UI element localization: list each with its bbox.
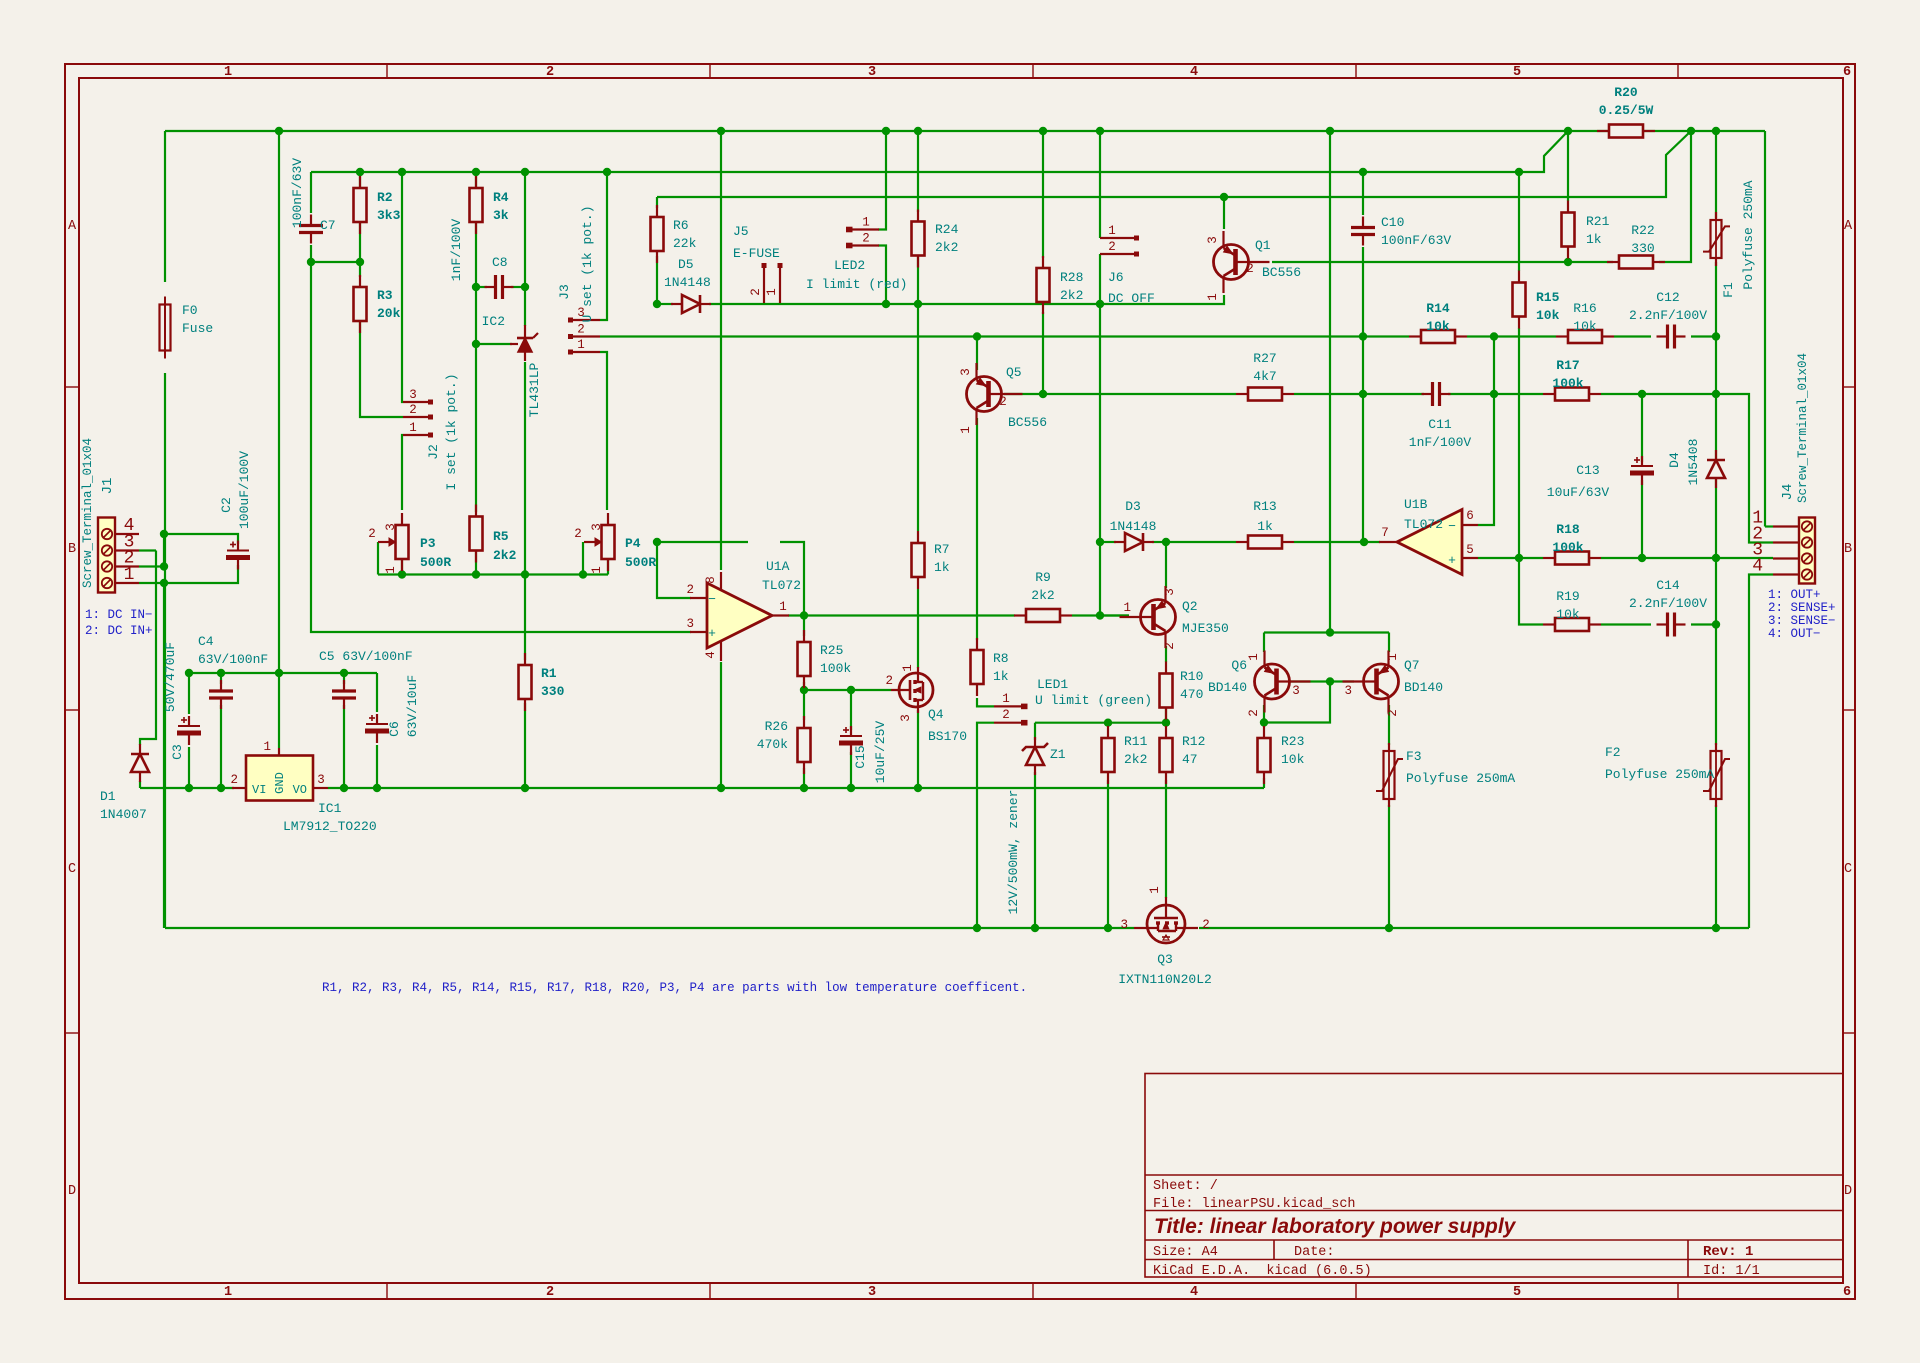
junction (1716,928) [1712,924,1720,932]
wire IC2 top [524,172,526,326]
shunt reference IC2 TL431LP [518,338,532,352]
svg-text:R6: R6 [673,218,689,233]
wire R10 R12 node [1165,708,1167,726]
junction (1519,172) [1515,168,1523,176]
svg-text:TL431LP: TL431LP [527,362,542,417]
diode D5 1N4148 [682,295,700,313]
svg-text:J6: J6 [1108,270,1124,285]
junction (1568,262) [1564,258,1572,266]
junction (1224,197) [1220,193,1228,201]
svg-text:C13: C13 [1576,463,1599,478]
svg-text:R18: R18 [1556,522,1580,537]
capacitor C13 polarized [1631,465,1653,467]
wire bottom bus right [1199,927,1749,929]
junction (360,262) [356,258,364,266]
svg-text:2: 2 [885,674,893,688]
svg-text:J3: J3 [557,284,572,300]
wire Q1 base to R22 [1272,261,1613,263]
wire bus3 [657,131,1691,197]
wire sense+ drop [1715,337,1717,395]
wire -12V rail left [140,787,234,789]
svg-text:3: 3 [1344,684,1352,698]
svg-text:1: 1 [590,566,604,574]
svg-text:4: OUT−: 4: OUT− [1768,627,1821,641]
junction (1264,722.5) [1260,718,1268,726]
wire F1 bottom [1715,262,1717,337]
wire D3 R13 U1B [1166,541,1236,543]
wire C2 top [164,534,238,544]
svg-text:R3: R3 [377,288,393,303]
wire Q2 base [1100,614,1129,616]
resistor R24 [912,222,925,256]
svg-text:4: 4 [1190,1285,1198,1300]
svg-text:D1: D1 [100,789,116,804]
junction (851,788) [847,784,855,792]
wire Q6Q7 emitter bus [1263,633,1265,653]
svg-text:B: B [1844,542,1852,557]
junction (1716,394) [1712,390,1720,398]
wire R2 R3 mid [359,222,361,277]
wire R11 top [1107,722,1109,726]
svg-text:3: 3 [1120,918,1128,932]
svg-text:500R: 500R [420,555,451,570]
svg-text:I limit (red): I limit (red) [806,277,907,292]
wire R12 to Q3 gate [1165,780,1167,898]
svg-text:BC556: BC556 [1262,265,1301,280]
resistor R23 [1258,738,1271,772]
svg-text:Q7: Q7 [1404,658,1420,673]
wire F0 bottom to bus [164,373,166,928]
connector J6 DC OFF [1100,237,1139,239]
junction (279,673) [275,669,283,677]
svg-text:LM7912_TO220: LM7912_TO220 [283,819,377,834]
svg-text:GND: GND [273,772,287,794]
svg-text:R1, R2, R3, R4, R5, R14, R15,: R1, R2, R3, R4, R5, R14, R15, R17, R18, … [322,981,1027,995]
svg-text:2: 2 [862,232,870,246]
wire C7 top [310,172,312,213]
wire R8 bottom [977,698,994,706]
resistor R4 [470,188,483,222]
svg-text:Q3: Q3 [1157,952,1173,967]
wire R17 right [1601,394,1773,543]
svg-text:3: 3 [959,368,973,376]
svg-text:20k: 20k [377,306,401,321]
capacitor C14 [1666,613,1669,637]
junction (1642,394) [1638,390,1646,398]
svg-text:P3: P3 [420,536,436,551]
transistor Q6 BD140 [1255,664,1290,699]
wire R11 bottom [1107,780,1109,928]
svg-text:1k: 1k [934,560,950,575]
svg-text:R14: R14 [1426,301,1450,316]
wire R15 bottom [1518,328,1520,558]
svg-text:Screw_Terminal_01x04: Screw_Terminal_01x04 [1796,353,1810,503]
wire C13 bottom [1641,480,1643,558]
svg-text:1: 1 [1002,692,1010,706]
svg-text:3: 3 [868,65,876,80]
svg-text:1: 1 [765,288,779,296]
wire R24 top [917,131,919,212]
wire F3 bottom [1388,805,1390,928]
svg-text:1: OUT+: 1: OUT+ [1768,588,1821,602]
svg-text:Q2: Q2 [1182,599,1198,614]
wire J6 pin1 up [1099,131,1101,238]
wire +input vert [311,262,691,632]
svg-text:Q6: Q6 [1231,658,1247,673]
wire IC1 gnd vert [278,131,280,748]
svg-text:10k: 10k [1573,319,1597,334]
junction (1043,131) [1039,127,1047,135]
svg-text:2: 2 [1108,240,1116,254]
junction (476,344) [472,340,480,348]
svg-text:BC556: BC556 [1008,415,1047,430]
wire J4 pin4 drop [1749,575,1773,929]
svg-text:7: 7 [1381,526,1389,540]
svg-text:1N5408: 1N5408 [1686,439,1701,486]
svg-text:2k2: 2k2 [1060,288,1083,303]
svg-text:2: DC IN+: 2: DC IN+ [85,624,153,638]
svg-text:1: 1 [1148,886,1162,894]
svg-text:D4: D4 [1667,452,1682,468]
junction (657,304) [653,300,661,308]
svg-text:1: 1 [124,565,135,585]
svg-text:10k: 10k [1281,752,1305,767]
svg-text:2: SENSE+: 2: SENSE+ [1768,601,1836,615]
svg-text:12V/500mW, zener: 12V/500mW, zener [1006,790,1021,915]
wire C5 top [343,673,345,684]
capacitor C4 [209,689,233,692]
wire bottom bus left [165,927,1134,929]
wire comp node drop [1362,337,1364,543]
capacitor C5 [332,689,356,692]
wire F2 bottom [1715,805,1717,928]
junction (1642,558) [1638,554,1646,562]
svg-text:D3: D3 [1125,499,1141,514]
junction (721,788) [717,784,725,792]
svg-text:C: C [1844,862,1852,877]
svg-text:C5 63V/100nF: C5 63V/100nF [319,649,413,664]
svg-text:VO: VO [293,783,307,797]
svg-text:−: − [708,592,716,607]
svg-text:63V/100nF: 63V/100nF [198,652,268,667]
svg-text:5: 5 [1513,65,1521,80]
svg-text:4: 4 [1752,557,1763,577]
svg-text:2.2nF/100V: 2.2nF/100V [1629,596,1707,611]
svg-text:BS170: BS170 [928,729,967,744]
svg-text:0.25/5W: 0.25/5W [1599,103,1654,118]
svg-text:3: 3 [1163,588,1177,596]
svg-text:R20: R20 [1614,85,1638,100]
wire R4 top [475,172,477,188]
svg-text:1: 1 [1386,653,1400,661]
wire R1 bottom [524,703,526,788]
svg-text:Id: 1/1: Id: 1/1 [1703,1264,1760,1279]
svg-text:+: + [1448,553,1456,568]
svg-text:R22: R22 [1631,223,1654,238]
wire D3 anode lead [1100,541,1116,543]
svg-text:3k3: 3k3 [377,208,401,223]
svg-text:C6: C6 [387,721,402,737]
junction (525,287) [521,283,529,291]
svg-text:5: 5 [1466,543,1474,557]
svg-text:1: 1 [901,664,915,672]
svg-text:U set (1k pot.): U set (1k pot.) [580,205,595,322]
wire Q5 e up [976,337,978,371]
wire R25 top [803,616,805,637]
junction (918,304) [914,300,922,308]
wire R25 R26 node [803,682,805,720]
svg-text:4: 4 [704,651,718,659]
wire C9 right [780,542,804,616]
svg-text:BD140: BD140 [1208,680,1247,695]
svg-text:470: 470 [1180,687,1203,702]
svg-text:6: 6 [1466,509,1474,523]
svg-text:R23: R23 [1281,734,1304,749]
svg-text:R19: R19 [1556,589,1579,604]
connector LED2 [852,228,879,230]
svg-text:8: 8 [704,576,718,584]
wire R16 to C12 [1614,335,1651,337]
wire R21 top [1567,131,1569,201]
svg-text:IXTN110N20L2: IXTN110N20L2 [1118,972,1212,987]
svg-text:2k2: 2k2 [1031,588,1054,603]
svg-text:1: 1 [263,740,271,754]
junction (1166,542) [1162,538,1170,546]
svg-text:BD140: BD140 [1404,680,1443,695]
svg-text:C14: C14 [1656,578,1680,593]
svg-text:1: 1 [1247,653,1261,661]
svg-text:C11: C11 [1428,417,1452,432]
junction (525,574.5) [521,570,529,578]
svg-text:2k2: 2k2 [935,240,958,255]
svg-text:LED1: LED1 [1037,677,1068,692]
svg-text:100nF/63V: 100nF/63V [1381,233,1451,248]
wire R5 bottom [475,549,477,575]
svg-text:R2: R2 [377,190,393,205]
svg-text:2k2: 2k2 [1124,752,1147,767]
svg-text:Q5: Q5 [1006,365,1022,380]
svg-text:+: + [708,626,716,641]
svg-text:C12: C12 [1656,290,1679,305]
wire J2 pin3 up [402,172,403,402]
svg-text:R24: R24 [935,222,959,237]
wire J6 to Q1 [1101,295,1224,304]
junction (1330,681.5) [1326,677,1334,685]
svg-text:F1: F1 [1721,282,1736,298]
wire R6 bottom [656,256,658,304]
junction (1100,542) [1096,538,1104,546]
resistor R14 [1421,330,1455,343]
wire C8 right lead [511,286,525,288]
svg-text:1: 1 [224,65,232,80]
wire C13 top [1641,394,1643,462]
svg-text:MJE350: MJE350 [1182,621,1229,636]
capacitor C12 [1666,325,1669,349]
svg-text:R4: R4 [493,190,509,205]
svg-text:J1: J1 [100,478,116,495]
svg-text:1: 1 [409,421,417,435]
svg-text:1k: 1k [993,669,1009,684]
svg-text:R15: R15 [1536,290,1560,305]
junction (1043,394) [1039,390,1047,398]
wire R24 bottom [917,257,919,304]
svg-text:Polyfuse 250mA: Polyfuse 250mA [1406,771,1515,786]
resistor R15 [1513,283,1526,317]
wire C7 bottom [310,245,312,262]
fuse F0 [160,305,171,351]
svg-text:2k2: 2k2 [493,548,517,563]
wire C5 bottom [343,705,345,788]
svg-text:2: 2 [999,395,1007,409]
junction (311,262) [307,258,315,266]
svg-text:Screw_Terminal_01x04: Screw_Terminal_01x04 [81,438,95,588]
wire J6 pin2 down [1099,254,1101,304]
svg-text:100k: 100k [820,661,851,676]
resistor R18 [1555,552,1589,565]
svg-text:3: 3 [899,714,913,722]
svg-text:63V/10uF: 63V/10uF [405,675,420,737]
wire C3 top [188,673,190,714]
svg-text:−: − [1448,519,1456,534]
wire C9 left [657,541,748,543]
svg-text:R16: R16 [1573,301,1596,316]
diode D4 1N5408 [1707,460,1725,478]
mosfet Q4 BS170 [899,673,933,707]
svg-text:Size: A4: Size: A4 [1153,1245,1218,1260]
junction (1100,615.5) [1096,611,1104,619]
svg-text:File: linearPSU.kicad_sch: File: linearPSU.kicad_sch [1153,1197,1356,1212]
svg-text:2: 2 [546,65,554,80]
wire VO right [328,787,1264,789]
svg-text:LED2: LED2 [834,258,865,273]
svg-text:J5: J5 [733,224,749,239]
connector J5 E-FUSE [763,268,765,303]
svg-text:10uF/63V: 10uF/63V [1547,485,1610,500]
svg-text:4k7: 4k7 [1253,369,1276,384]
svg-text:E-FUSE: E-FUSE [733,246,780,261]
resistor R28 [1037,268,1050,302]
wire J3 pin3 up [600,172,607,320]
svg-text:C2: C2 [219,497,234,513]
resistor R1 [519,665,532,699]
resistor R27 [1248,388,1282,401]
svg-text:R9: R9 [1035,570,1051,585]
svg-text:100k: 100k [1552,376,1583,391]
polyfuse F1 [1711,220,1722,258]
wire +raw after R20 [1643,130,1765,132]
wire C6 top [376,673,378,712]
wire F0 top [164,131,166,282]
wire emitters supply [1329,131,1331,633]
wire R23 top [1263,723,1265,727]
svg-text:Polyfuse 250mA: Polyfuse 250mA [1741,180,1756,289]
connector J1 screw terminal [98,518,115,593]
svg-text:50V/470uF: 50V/470uF [163,642,178,712]
junction (1568,131) [1564,127,1572,135]
wire R24 to R7 [917,304,919,531]
capacitor C10 [1351,226,1375,229]
wire Q6 base link [1288,680,1330,682]
svg-text:C: C [68,862,76,877]
wire J4 pin1 link [1765,525,1773,527]
junction (1691,131) [1687,127,1695,135]
wire J1 DCIN+ vert [163,534,165,567]
wire IC2 ref [476,343,512,345]
resistor R16 [1568,330,1602,343]
wire J2 pin1 to P3 [402,435,403,510]
svg-text:VI: VI [252,783,266,797]
junction (1108,928) [1104,924,1112,932]
connector J4 screw terminal [1799,518,1815,584]
junction (221,673) [217,669,225,677]
svg-text:C8: C8 [492,255,508,270]
wire efuse right [886,303,918,305]
svg-text:C3: C3 [170,744,185,760]
wire R4 bottom [475,222,477,287]
svg-text:2: 2 [1386,709,1400,717]
junction (525,172) [521,168,529,176]
wire J3 pin1 down [600,352,607,510]
wire U1A p4 [720,662,722,788]
wire R6 top [656,197,658,208]
wire Q7 base link [1330,680,1354,682]
junction (344,673) [340,669,348,677]
svg-text:1: 1 [779,600,787,614]
svg-text:R28: R28 [1060,270,1083,285]
wire bus2 [311,131,1568,172]
svg-text:Polyfuse 250mA: Polyfuse 250mA [1605,767,1714,782]
svg-text:R27: R27 [1253,351,1276,366]
wire efuse to J6 [918,303,1101,305]
wire R7 to Q4 drain [917,589,919,668]
op-amp U1A TL072 [707,583,772,648]
svg-text:2: 2 [574,527,582,541]
svg-text:1: 1 [862,216,870,230]
svg-text:1: 1 [1108,224,1116,238]
svg-text:C15: C15 [853,745,868,768]
resistor R2 [354,188,367,222]
resistor R20 [1609,125,1643,138]
diode D3 1N4148 [1125,533,1143,551]
svg-text:1k: 1k [1257,519,1273,534]
wire sense- drop [1715,558,1717,625]
wire C15 top [850,690,852,730]
svg-text:TL072: TL072 [762,578,801,593]
junction (525,788) [521,784,529,792]
wire Z1 node [1035,722,1166,724]
wire P4 bottom [607,560,609,575]
wire Q4 gate wire [804,689,891,691]
resistor R21 [1562,213,1575,247]
junction (1363,394) [1359,390,1367,398]
junction (607,172) [603,168,611,176]
svg-text:R8: R8 [993,651,1009,666]
svg-text:3: 3 [384,523,398,531]
svg-text:A: A [1844,219,1853,234]
transistor Q2 MJE350 [1141,600,1176,635]
potentiometer P3 [396,525,409,559]
wire LED2 p2 [878,246,886,305]
junction (164,566.5) [160,562,168,570]
junction (1716,624.5) [1712,620,1720,628]
wire C4 top [220,673,222,684]
svg-text:1: 1 [1206,293,1220,301]
svg-text:A: A [68,219,77,234]
wire C12 to F1 node [1691,335,1716,337]
junction (1716,336.5) [1712,332,1720,340]
svg-text:Q1: Q1 [1255,238,1271,253]
svg-text:1nF/100V: 1nF/100V [1409,435,1472,450]
